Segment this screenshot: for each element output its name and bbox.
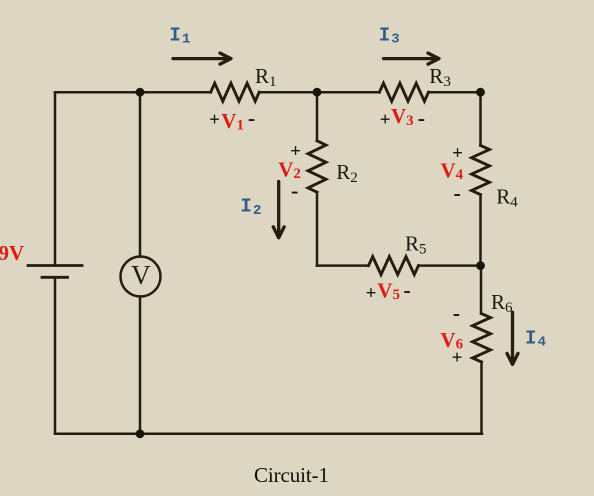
wire R3 to node C bbox=[429, 91, 481, 94]
wire left branch down to battery bbox=[54, 92, 57, 265]
svg-text:-: - bbox=[248, 106, 255, 131]
wire node B to R3 bbox=[317, 91, 379, 94]
svg-text:+: + bbox=[452, 347, 463, 368]
resistor R4 bbox=[472, 145, 490, 194]
node B junction dot bbox=[313, 88, 322, 97]
current arrow I3 bbox=[384, 53, 440, 64]
svg-text:+: + bbox=[380, 109, 391, 130]
wire R4 down to node D bbox=[479, 195, 482, 266]
svg-text:-: - bbox=[403, 278, 410, 303]
node D junction dot bbox=[476, 261, 485, 270]
node bottom junction dot bbox=[136, 429, 145, 438]
node C junction dot bbox=[476, 88, 485, 97]
resistor R3 bbox=[379, 83, 428, 101]
voltmeter V circle bbox=[121, 257, 161, 297]
wire top left horizontal bbox=[55, 91, 211, 94]
current arrow I4 bbox=[507, 312, 518, 364]
wire R5 to node D bbox=[419, 264, 481, 267]
current arrow I1 bbox=[173, 53, 231, 64]
svg-text:+: + bbox=[366, 283, 377, 304]
wire node D down to R6 bbox=[480, 266, 483, 314]
svg-text:+: + bbox=[209, 110, 220, 131]
resistor R2 bbox=[308, 141, 326, 192]
wire bottom rail bbox=[55, 433, 482, 436]
svg-text:-: - bbox=[454, 180, 461, 205]
wire R1 to node B bbox=[259, 91, 317, 94]
svg-text:-: - bbox=[291, 178, 298, 203]
resistor R1 bbox=[211, 83, 260, 101]
svg-text:9V: 9V bbox=[0, 241, 24, 265]
wire node C down to R4 bbox=[479, 92, 482, 145]
wire R6 down to bottom rail bbox=[480, 362, 483, 434]
current arrow I2 bbox=[273, 182, 284, 238]
svg-text:-: - bbox=[453, 300, 460, 325]
svg-text:-: - bbox=[418, 105, 425, 130]
wire R2 down to middle rail bbox=[316, 192, 319, 265]
svg-text:Circuit-1: Circuit-1 bbox=[254, 463, 329, 487]
wire middle rail to R5 bbox=[317, 264, 369, 267]
wire battery to bottom left corner bbox=[54, 277, 57, 434]
wire voltmeter branch lower bbox=[139, 297, 142, 434]
wire voltmeter branch upper bbox=[139, 92, 142, 256]
resistor R5 bbox=[369, 257, 419, 275]
svg-text:V: V bbox=[131, 260, 151, 290]
wire node B down to R2 bbox=[316, 92, 319, 141]
battery B1 plate long bbox=[28, 264, 82, 267]
battery B1 plate short bbox=[42, 276, 68, 279]
resistor R6 bbox=[473, 314, 491, 362]
node junction dot top voltmeter bbox=[136, 88, 145, 97]
